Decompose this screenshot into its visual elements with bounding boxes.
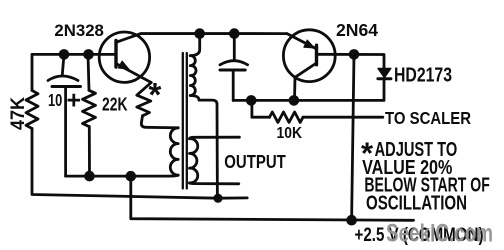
wire 47K bottom to output common: [32, 129, 247, 199]
svg-text:TO SCALER: TO SCALER: [385, 108, 471, 128]
node 22K bottom junction: [84, 171, 95, 182]
node Q2 collector junction: [289, 95, 300, 106]
wire Q2 base to diode anode: [317, 54, 385, 68]
transistor Q1 2N328: [99, 32, 151, 83]
svg-text:2N328: 2N328: [54, 22, 104, 40]
resistor R-adjust (*): [137, 83, 166, 128]
transformer T1 feedback winding: [166, 128, 178, 177]
wire Q2 base to common rail: [352, 54, 354, 220]
svg-text:10: 10: [48, 90, 62, 110]
wire feedback-winding bottom rail: [66, 175, 170, 178]
transistor Q2 2N64: [283, 30, 335, 101]
resistor 47K: [26, 54, 38, 128]
svg-text:+: +: [67, 86, 82, 114]
transformer T1 secondary winding (OUTPUT): [190, 137, 240, 184]
wire Q1 base: [32, 53, 116, 56]
resistor 10K: [252, 100, 303, 122]
node base-right junction: [83, 49, 94, 60]
wire collector rail to diode cathode: [233, 79, 384, 100]
svg-text:OSCILLATION: OSCILLATION: [366, 193, 467, 215]
node Q2 base junction: [349, 49, 360, 60]
node output common junction: [213, 194, 222, 203]
node base-left junction: [59, 49, 70, 60]
svg-text:10K: 10K: [277, 125, 303, 142]
node 10K junction: [246, 95, 257, 106]
svg-text:HD2173: HD2173: [394, 64, 452, 87]
resistor 22K: [83, 54, 96, 176]
wire to scaler: [303, 116, 383, 119]
node top-rail tank-cap junction: [229, 28, 240, 39]
node top-rail transformer junction: [194, 28, 205, 39]
svg-text:OUTPUT: OUTPUT: [224, 151, 286, 172]
node common drop junction: [126, 171, 137, 182]
svg-text:SeekIC.com: SeekIC.com: [386, 220, 493, 248]
diode D1 HD2173: [378, 68, 391, 78]
node common rail junction: [346, 215, 357, 226]
capacitor C1 10uF: [48, 54, 81, 176]
transformer T1 core: [183, 53, 187, 189]
svg-text:*: *: [149, 76, 162, 113]
svg-text:47K: 47K: [8, 97, 29, 130]
svg-text:2N64: 2N64: [336, 20, 378, 40]
svg-text:22K: 22K: [102, 94, 128, 115]
transformer T1 primary winding: [190, 34, 217, 199]
capacitor C2 tank: [220, 34, 248, 101]
wire bottom common rail: [131, 176, 414, 220]
wire top rail (Q1 collector to Q2 emitter): [116, 34, 287, 43]
